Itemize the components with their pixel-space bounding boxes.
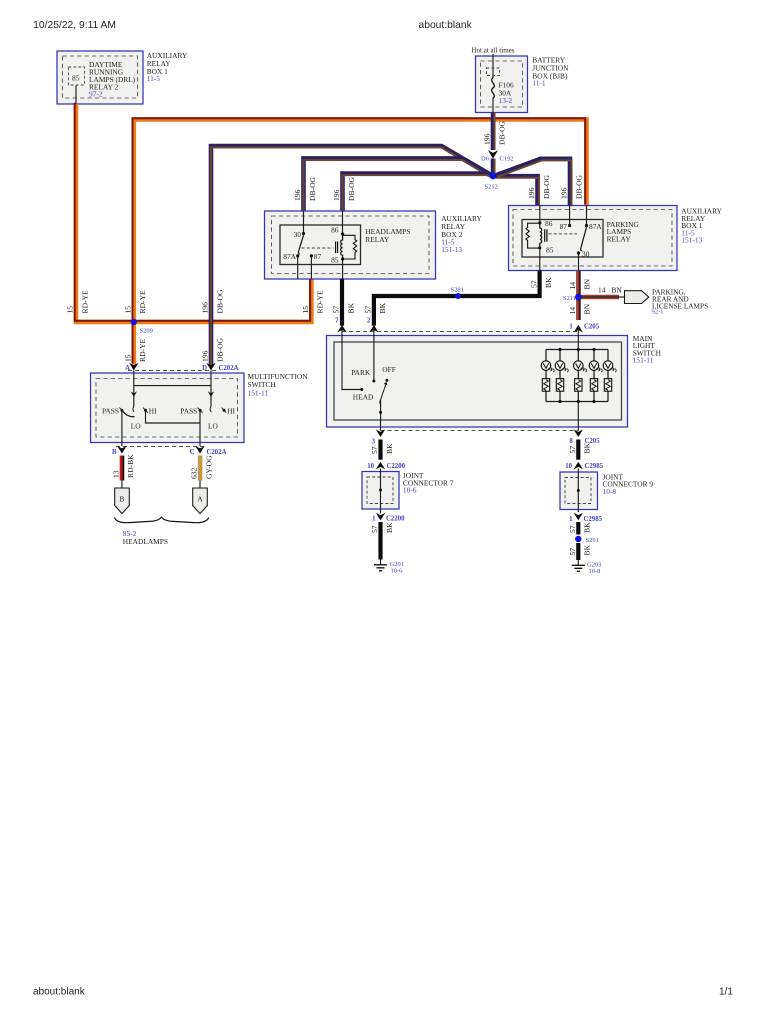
fuse holder dashed box: [487, 68, 500, 76]
wire: PK relay pin 87A inside stub: [586, 206, 588, 226]
svg-text:10: 10: [367, 463, 374, 470]
svg-text:BK: BK: [346, 302, 355, 313]
svg-text:196: 196: [293, 189, 302, 201]
svg-text:85: 85: [546, 246, 554, 255]
svg-text:11-5: 11-5: [147, 74, 161, 83]
HL relay pin 87A dot: [296, 254, 299, 257]
wire: fuse to BJB box bottom: [492, 98, 494, 113]
svg-text:30: 30: [294, 230, 302, 239]
svg-text:BK: BK: [378, 302, 387, 313]
PK relay pin 87 dot: [568, 224, 571, 227]
headlamps relay dashed outline: [272, 216, 430, 274]
wire: HL relay pin 86 inside stub: [342, 211, 344, 234]
svg-text:196: 196: [332, 189, 341, 201]
svg-text:8: 8: [569, 438, 573, 445]
MLS HEAD contact dot: [360, 388, 363, 391]
wire: PK relay pin 87 inside stub: [569, 206, 571, 226]
BJB inner dashed outline: [481, 61, 523, 107]
svg-text:57: 57: [529, 280, 538, 288]
HL relay coil core lines: [336, 242, 338, 254]
svg-text:151-11: 151-11: [248, 388, 269, 397]
wire: ground stub G203: [577, 560, 579, 565]
svg-text:RD-YE: RD-YE: [316, 290, 325, 314]
svg-text:15: 15: [124, 306, 133, 314]
svg-text:10-6: 10-6: [391, 568, 404, 575]
MLS PARK contact dot: [372, 380, 375, 383]
svg-text:14: 14: [568, 307, 577, 315]
PK relay switch blade 87A-30: [581, 227, 587, 251]
wire: ground stub G201: [380, 560, 382, 565]
joint connector 9 junction dot: [577, 489, 580, 492]
svg-text:B: B: [112, 449, 117, 456]
svg-text:87A: 87A: [589, 222, 602, 231]
MLS OFF contact dot: [385, 379, 388, 382]
svg-text:C205: C205: [584, 324, 600, 331]
svg-text:C202A: C202A: [207, 449, 227, 456]
svg-text:BK: BK: [583, 544, 592, 555]
svg-text:GY-OG: GY-OG: [204, 455, 213, 479]
MFS right PASS contact tick: [198, 408, 203, 413]
svg-text:151-11: 151-11: [633, 356, 654, 365]
svg-text:A: A: [125, 365, 130, 372]
svg-text:15: 15: [66, 306, 75, 314]
svg-text:LO: LO: [208, 422, 219, 431]
svg-text:C2985: C2985: [584, 516, 603, 523]
MLS common wire to pin 3: [380, 399, 382, 420]
MLS illumination lamp and resistor column 1: [541, 350, 554, 402]
svg-text:BK: BK: [583, 442, 592, 453]
svg-text:632: 632: [190, 467, 199, 479]
wire BK: C2985 to S291: [576, 522, 580, 535]
svg-text:10/25/22, 9:11 AM: 10/25/22, 9:11 AM: [33, 20, 116, 31]
joint connector 7 junction dot: [379, 489, 382, 492]
svg-text:S291: S291: [586, 537, 599, 544]
svg-text:57: 57: [364, 306, 373, 314]
svg-text:57: 57: [568, 525, 577, 533]
svg-text:BN: BN: [612, 286, 623, 295]
svg-text:D6: D6: [481, 156, 490, 163]
svg-text:87A: 87A: [283, 252, 296, 261]
MFS pin C arrow: [195, 446, 204, 454]
MLS pin 2 arrow: [369, 325, 378, 333]
MLS inner rect: [334, 342, 622, 420]
MLS wire pin2 to PARK contact: [373, 326, 375, 382]
ground symbol G203: [572, 565, 585, 571]
MLS blade pivot hook: [380, 399, 381, 404]
multifunction switch connector dashed line (bottom): [116, 445, 206, 447]
MFS wire PASS-left to pin B: [121, 410, 123, 446]
MFS wire HI-left to right PASS: [146, 410, 201, 423]
svg-text:86: 86: [545, 219, 553, 228]
splice S212: [490, 173, 497, 180]
svg-text:DB-OG: DB-OG: [347, 176, 356, 201]
wire: PK relay pin 86 inside stub: [539, 206, 541, 223]
DRL relay inner dashed outline: [63, 56, 138, 98]
svg-text:151-13: 151-13: [681, 235, 702, 244]
wire RD-YE: DRL pin85 down, S209 horizontal run, up to headlamps relay pin 87: [75, 103, 312, 322]
svg-text:S211: S211: [563, 295, 576, 302]
MLS lamp bus wire from pin 1: [577, 326, 579, 350]
HL relay switch blade 30-87A: [298, 235, 303, 254]
splice S211: [575, 294, 582, 301]
svg-text:C2200: C2200: [387, 463, 406, 470]
PK relay actuator dashed line: [549, 233, 578, 235]
DRL relay pin 85 dashed box: [68, 67, 84, 85]
svg-text:1/1: 1/1: [719, 987, 733, 998]
splice S281: [455, 293, 461, 299]
svg-text:DB-OG: DB-OG: [574, 174, 583, 199]
MFS dashed outline: [96, 379, 238, 438]
MFS right HI contact tick: [222, 408, 227, 413]
wire BK: MLS pin8 to C2985: [576, 440, 580, 460]
MLS illumination lamp and resistor column 3: [574, 350, 587, 402]
wire BK: S291 to G203: [576, 543, 580, 560]
svg-text:C2985: C2985: [585, 463, 604, 470]
joint connector 7 dashed outline: [367, 477, 393, 504]
svg-text:10-8: 10-8: [589, 568, 601, 575]
svg-text:196: 196: [201, 302, 210, 314]
PK relay pin 85 dot: [538, 246, 541, 249]
svg-text:PARK: PARK: [351, 368, 371, 377]
wire DB-OG: S212 to parking relay pin 87: [496, 159, 572, 207]
HL relay pin 85 dot: [341, 257, 344, 260]
svg-text:BK: BK: [385, 443, 394, 454]
svg-text:1: 1: [569, 324, 573, 331]
MLS pin 7 arrow: [337, 325, 346, 333]
MLS lamp bottom bus: [546, 401, 608, 403]
wire: stub to connector B: [121, 481, 123, 489]
HL relay coil: [341, 235, 343, 259]
svg-text:97-2: 97-2: [89, 90, 103, 99]
svg-text:15: 15: [124, 354, 133, 362]
wire DB-OG: BJB to connector C192: [493, 113, 495, 151]
MLS common junction dot: [379, 411, 382, 414]
HL relay pin 86 dot: [341, 232, 344, 235]
svg-text:196: 196: [483, 133, 492, 145]
svg-text:15: 15: [301, 306, 310, 314]
MFS right HI contact dot: [223, 409, 226, 412]
svg-text:Hot at all times: Hot at all times: [472, 47, 515, 55]
headlamps relay outer box: [265, 211, 436, 279]
wire BK: MLS pin3 to C2200: [378, 440, 382, 460]
svg-text:10: 10: [565, 463, 572, 470]
MFS left PASS contact tick: [119, 408, 124, 413]
svg-text:C2200: C2200: [386, 516, 405, 523]
svg-text:A: A: [197, 495, 203, 504]
svg-text:C192: C192: [500, 156, 514, 163]
MFS left blade (A to LO): [122, 410, 135, 416]
svg-text:DB-OG: DB-OG: [308, 176, 317, 201]
wire: PK relay pin 85 inside stub: [539, 248, 541, 271]
svg-text:about:blank: about:blank: [419, 20, 473, 31]
off-page pennant PARKING REAR AND LICENSE LAMPS: [625, 291, 649, 304]
wire through joint connector 7: [380, 469, 382, 514]
svg-text:PASS: PASS: [180, 406, 197, 415]
MLS lamp bus dots top: [558, 348, 561, 351]
connector C192 arrow: [488, 150, 498, 158]
svg-text:HI: HI: [227, 406, 235, 415]
svg-text:C202A: C202A: [219, 365, 239, 372]
svg-text:D: D: [202, 365, 207, 372]
svg-text:LO: LO: [131, 422, 142, 431]
wire: BJB feed stub above fuse: [492, 54, 494, 78]
wire DB-OG: C192 to S212: [493, 159, 495, 174]
PK relay suppression resistor: [526, 223, 540, 248]
multifunction switch connector dashed line (top): [128, 370, 218, 372]
wire: DRL pin 85 stub: [75, 86, 77, 105]
svg-text:14: 14: [598, 286, 606, 295]
MLS wire pin7 to HEAD contact: [342, 326, 362, 390]
svg-text:BN: BN: [583, 303, 592, 314]
wire BN: parking relay pin 30 to S211 to MLS pin 1: [578, 271, 580, 321]
brace under connectors: [115, 517, 209, 522]
svg-text:11-1: 11-1: [532, 78, 546, 87]
svg-text:HI: HI: [149, 406, 157, 415]
svg-text:57: 57: [370, 525, 379, 533]
svg-text:BK: BK: [583, 522, 592, 533]
battery junction box outer box: [476, 56, 528, 113]
wire: HL relay pin 30 inside stub: [303, 211, 305, 234]
svg-text:OFF: OFF: [382, 365, 396, 374]
fuse F106 30A symbol: [492, 78, 495, 98]
svg-text:57: 57: [332, 306, 341, 314]
svg-text:RELAY: RELAY: [607, 234, 632, 243]
svg-text:RD-YE: RD-YE: [138, 290, 147, 314]
wire: HL relay 87A stub: [297, 256, 299, 279]
MFS left blade hook at A feed: [133, 407, 134, 412]
wire BK: parking relay pin 85 to S281 to main light switch pin 2: [374, 271, 540, 326]
svg-text:30: 30: [582, 249, 590, 258]
PK relay pin 87A dot: [585, 224, 588, 227]
svg-text:DB-OG: DB-OG: [215, 289, 224, 314]
wire: HL relay pin 87 inside stub: [310, 256, 312, 279]
HL relay actuator dashed line: [302, 247, 334, 249]
MFS left HI contact tick: [143, 408, 148, 413]
svg-text:C: C: [190, 449, 195, 456]
wire RD-YE: top loop from parking relay 87A across top to multifunction switch pin A: [133, 118, 587, 365]
svg-text:196: 196: [560, 187, 569, 199]
PK relay pin 86 dot: [538, 221, 541, 224]
wire: stub to connector A: [199, 481, 201, 489]
svg-text:S212: S212: [485, 184, 498, 191]
svg-text:57: 57: [568, 446, 577, 454]
connector pennant A: [193, 488, 208, 514]
svg-text:13-2: 13-2: [499, 96, 513, 105]
svg-text:BK: BK: [544, 277, 553, 288]
MFS left HI contact dot: [144, 409, 147, 412]
headlamps relay inner rect: [280, 225, 361, 265]
svg-text:87: 87: [314, 252, 322, 261]
multifunction switch outer box: [91, 373, 245, 443]
wire BN: S211 to parking/rear lamps pennant: [578, 295, 619, 299]
MLS illumination lamp and resistor column 2: [555, 350, 568, 402]
wire: HL relay pin 85 inside stub: [342, 259, 344, 279]
svg-text:57: 57: [568, 548, 577, 556]
parking relay dashed outline: [513, 210, 672, 267]
MLS pin 3 arrow (below box): [376, 429, 385, 437]
svg-text:DB-OG: DB-OG: [497, 120, 506, 145]
svg-text:PASS: PASS: [102, 406, 119, 415]
svg-text:RD-YE: RD-YE: [80, 290, 89, 314]
svg-text:57: 57: [370, 446, 379, 454]
wire DB-OG: S212 to parking relay pin 86: [495, 176, 539, 207]
connector C2985 arrow (bottom, down): [574, 513, 583, 521]
relay box: daytime running lamps relay 2 outer box: [57, 51, 143, 104]
wire DB-OG: S212 to headlamps relay pin 86: [343, 174, 493, 213]
svg-text:BN: BN: [583, 278, 592, 289]
svg-text:10-6: 10-6: [403, 486, 417, 495]
MLS pin 1 arrow: [574, 325, 583, 333]
MFS internal feed from pin D: [210, 370, 212, 406]
MFS right PASS contact dot: [199, 409, 202, 412]
main light switch connector dashed line (bottom): [381, 429, 579, 431]
connector C2985 arrow (up): [574, 462, 583, 470]
MLS switch blade to OFF: [381, 383, 387, 400]
MLS lamp bus dots bottom: [558, 400, 561, 403]
connector pennant B: [115, 488, 130, 514]
svg-text:86: 86: [331, 226, 339, 235]
svg-text:DB-OG: DB-OG: [542, 174, 551, 199]
joint connector 7 box: [362, 472, 399, 510]
svg-text:7: 7: [335, 318, 339, 325]
MLS illumination lamp and resistor column 4: [589, 350, 602, 402]
svg-text:S209: S209: [140, 328, 153, 335]
parking relay inner rect: [522, 220, 603, 258]
MFS pin B arrow: [117, 446, 126, 454]
svg-text:13: 13: [112, 470, 121, 478]
parking lamps relay outer box: [509, 206, 678, 271]
MLS pin 8 exit stub: [577, 420, 579, 431]
joint connector 9 box: [560, 472, 598, 510]
wire DB-OG: S212 to headlamps relay pin 30: [304, 158, 491, 212]
joint connector 9 dashed outline: [565, 478, 591, 504]
HL relay pin 30 dot: [302, 232, 305, 235]
wire RD-BK: pin B to headlamp connector: [122, 456, 123, 481]
main light switch connector dashed line (top): [342, 331, 578, 333]
wire DB-OG: S212 to multifunction switch pin D: [211, 146, 491, 366]
svg-text:RD-YE: RD-YE: [138, 338, 147, 362]
svg-text:87: 87: [560, 222, 568, 231]
MLS lamp return wire to pin 8: [577, 402, 579, 421]
wire BK: C2200 to G201: [378, 522, 382, 560]
svg-text:HEADLAMPS: HEADLAMPS: [123, 537, 168, 546]
svg-text:151-13: 151-13: [441, 245, 462, 254]
HL relay suppression resistor: [343, 235, 357, 259]
svg-text:196: 196: [527, 187, 536, 199]
svg-text:RELAY: RELAY: [365, 235, 390, 244]
MFS internal bus A-D: [134, 385, 211, 387]
MFS pin D arrow: [206, 363, 215, 371]
MFS wire PASS-right to pin C: [199, 410, 201, 446]
svg-text:about:blank: about:blank: [33, 987, 86, 998]
splice S291: [575, 536, 581, 542]
wire GY-OG: pin C to headlamp connector: [200, 456, 201, 481]
connector C2200 arrow (bottom, down): [376, 513, 385, 521]
connector C2200 arrow (up): [376, 462, 385, 470]
MLS illumination lamp and resistor column 5: [603, 350, 616, 402]
svg-text:85: 85: [72, 73, 80, 82]
main light switch outer box: [327, 336, 628, 428]
svg-text:3: 3: [372, 439, 376, 446]
svg-text:10-8: 10-8: [603, 487, 617, 496]
splice S209: [131, 319, 137, 325]
PK relay pin 30 dot: [577, 251, 580, 254]
MLS lamp top bus: [546, 349, 608, 351]
MFS pin A arrow: [129, 363, 138, 371]
svg-text:2: 2: [367, 318, 371, 325]
MLS pin 8 arrow (below box): [574, 429, 583, 437]
PK relay coil core lines: [545, 229, 547, 242]
svg-text:85: 85: [331, 255, 339, 264]
svg-text:HEAD: HEAD: [353, 392, 374, 401]
svg-text:1: 1: [569, 516, 573, 523]
svg-text:196: 196: [201, 350, 210, 362]
MFS internal feed from pin A: [133, 370, 135, 406]
wire BK: headlamps relay pin 85 down to main light switch pin 7: [340, 279, 344, 326]
MFS left PASS contact dot: [120, 409, 123, 412]
svg-text:BK: BK: [385, 522, 394, 533]
HL relay pin 87 dot: [310, 254, 313, 257]
svg-text:RD-BK: RD-BK: [126, 454, 135, 478]
ground symbol G201: [374, 565, 387, 571]
PK relay coil: [540, 223, 542, 248]
svg-text:14: 14: [568, 282, 577, 290]
svg-text:B: B: [120, 495, 125, 504]
MFS mini arrow on A feed: [131, 391, 137, 397]
svg-text:1: 1: [372, 516, 376, 523]
MFS right blade hook at D feed: [210, 407, 211, 412]
MLS pin 3 exit stub: [380, 420, 382, 431]
svg-text:92-1: 92-1: [652, 308, 664, 315]
MFS mini arrow on D feed: [208, 391, 214, 397]
svg-text:S281: S281: [451, 287, 464, 294]
wire: link to pennant: [619, 296, 625, 298]
wire: PK relay pin 30 inside stub: [578, 253, 580, 271]
svg-text:DB-OG: DB-OG: [215, 337, 224, 362]
wire through joint connector 9: [577, 469, 579, 513]
